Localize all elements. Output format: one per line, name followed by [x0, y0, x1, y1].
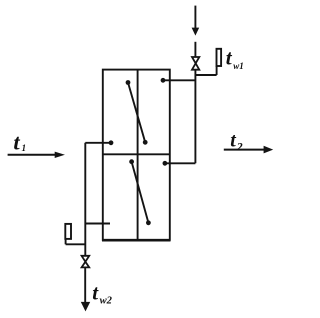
svg-text:t: t — [92, 281, 99, 305]
svg-text:1: 1 — [22, 143, 27, 153]
svg-text:2: 2 — [236, 140, 243, 154]
svg-text:w2: w2 — [100, 296, 113, 307]
svg-text:t: t — [230, 129, 236, 151]
svg-text:t: t — [226, 46, 233, 70]
svg-text:w1: w1 — [233, 61, 244, 71]
svg-text:t: t — [13, 130, 20, 155]
